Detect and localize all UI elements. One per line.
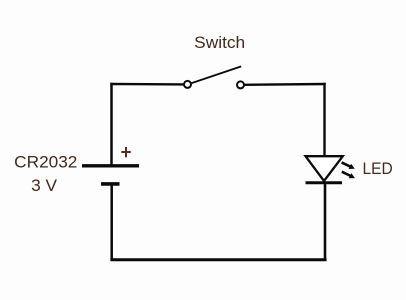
svg-text:LED: LED <box>363 159 393 178</box>
svg-text:3 V: 3 V <box>31 176 58 195</box>
svg-text:CR2032: CR2032 <box>14 153 77 172</box>
svg-text:Switch: Switch <box>194 33 245 52</box>
